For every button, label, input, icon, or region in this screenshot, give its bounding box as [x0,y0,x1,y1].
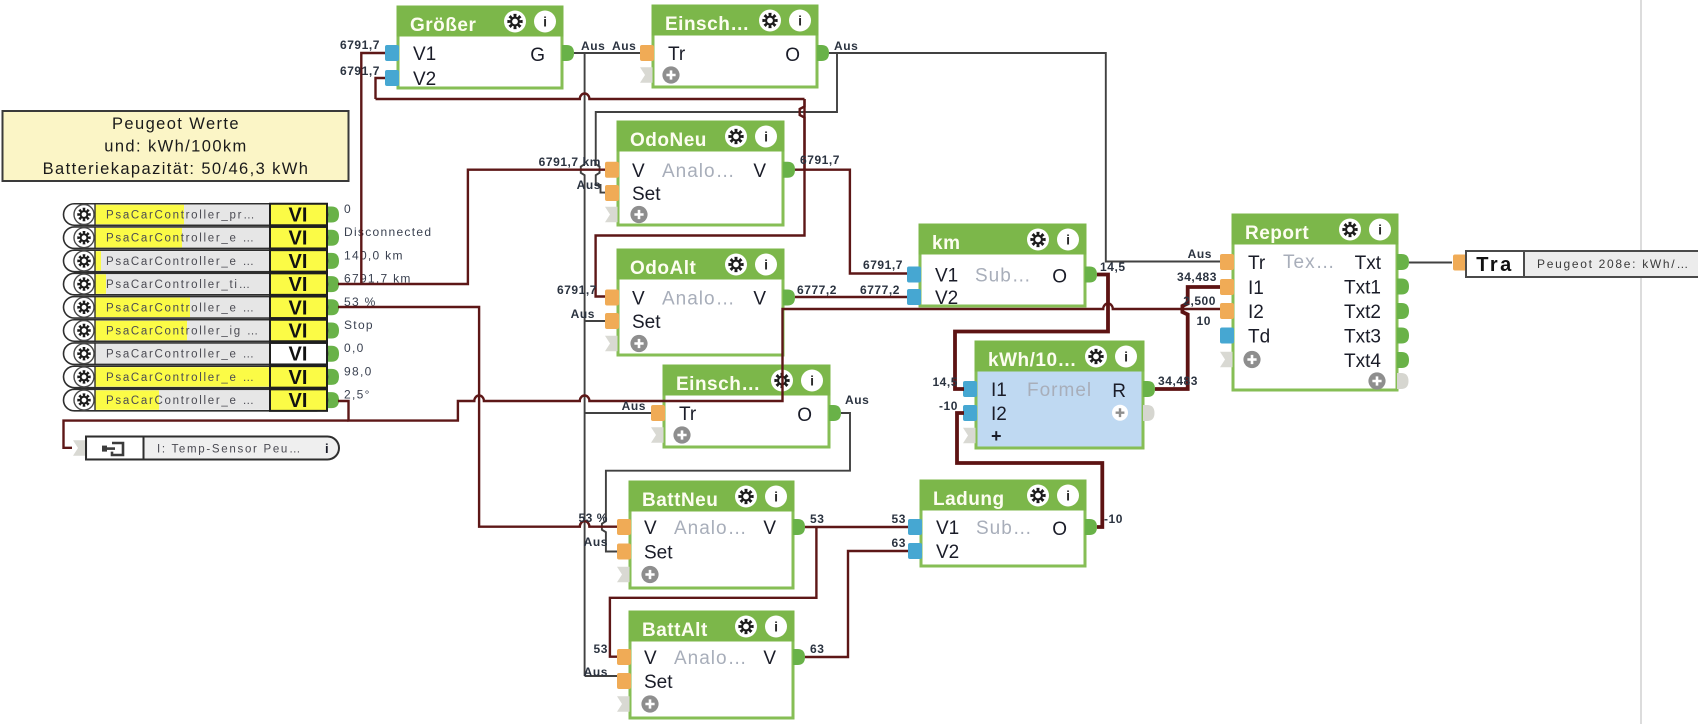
svg-text:Peugeot 208e: kWh/…: Peugeot 208e: kWh/… [1537,257,1690,271]
label km.O out [1100,260,1126,274]
svg-text:PsaCarController_ti…: PsaCarController_ti… [106,279,252,291]
input row 1: 0 [64,204,340,227]
label BattNeu out [810,512,824,526]
svg-text:Txt1: Txt1 [1344,278,1381,299]
label Einsch2.O out Aus [845,393,869,407]
label kWh.I1 in [932,375,958,389]
svg-text:Tra: Tra [1476,254,1514,276]
svg-text:53: 53 [892,512,906,526]
svg-text:Tex…: Tex… [1283,252,1336,273]
svg-text:VI: VI [289,367,308,389]
svg-text:OdoNeu: OdoNeu [630,130,707,151]
svg-text:V2: V2 [413,69,436,90]
svg-text:VI: VI [289,251,308,273]
value label 2,5&#176; [344,388,371,402]
svg-text:VI: VI [289,228,308,250]
svg-text:Set: Set [644,672,673,693]
km ports [907,266,1097,310]
label BattAlt.V in [594,642,608,656]
svg-text:V: V [632,161,645,182]
svg-text:PsaCarController_e …: PsaCarController_e … [106,395,256,407]
svg-text:Tr: Tr [679,404,697,425]
svg-text:Aus: Aus [612,39,636,53]
label Einsch2.Tr in Aus [622,399,646,413]
svg-text:2,500: 2,500 [1183,294,1216,308]
svg-text:Tr: Tr [1248,253,1266,274]
svg-text:2,5°: 2,5° [344,388,371,402]
label Report.I2 in [1183,294,1216,308]
svg-text:O: O [785,45,800,66]
svg-text:PsaCarController_ig …: PsaCarController_ig … [106,326,260,338]
svg-text:G: G [530,45,545,66]
svg-text:Analo…: Analo… [674,518,748,539]
svg-text:VI: VI [289,390,308,412]
wire BattNeu.V to Ladung.V1 [805,526,908,528]
wire net to Größer.V2 [376,78,805,99]
svg-text:PsaCarController_e …: PsaCarController_e … [106,302,256,314]
svg-text:53 %: 53 % [578,511,608,525]
svg-text:km: km [932,233,960,254]
Einsch2 ports [651,404,841,444]
svg-text:53: 53 [594,642,608,656]
svg-text:Aus: Aus [584,535,608,549]
wire km.O to kWh.I1 [955,275,1108,390]
wire net down to OdoAlt.V [596,99,805,297]
label kWh.I2 in [939,399,958,413]
label Einsch1.O out Aus [834,39,858,53]
block BattNeu [629,481,795,589]
BattNeu ports [617,518,805,583]
svg-text:10: 10 [1197,314,1211,328]
label OdoNeu out [800,153,840,167]
value label 0 [344,202,352,216]
wire OdoNeu.V up to y99 [803,99,805,170]
svg-text:-10: -10 [939,399,958,413]
svg-text:Analo…: Analo… [674,648,748,669]
svg-text:Aus: Aus [571,307,595,321]
label BattNeu.Set in Aus [584,535,608,549]
value label 53 % [344,295,377,309]
kWh ports [963,380,1155,446]
svg-text:Td: Td [1248,327,1270,348]
temp sensor row [73,437,339,460]
svg-text:I: Temp-Sensor Peu…: I: Temp-Sensor Peu… [157,444,302,456]
svg-text:V: V [763,518,776,539]
svg-text:0,0: 0,0 [344,341,365,355]
value label 6791,7 km [344,272,412,286]
wire Einsch1.O to OdoNeu.Set [596,53,837,193]
svg-text:63: 63 [892,536,906,550]
svg-text:VI: VI [289,205,308,227]
wire Einsch2.O to BattNeu.Set [602,413,850,552]
svg-text:VI: VI [289,297,308,319]
label BattAlt out [810,642,824,656]
svg-text:R: R [1112,381,1126,402]
svg-text:Peugeot Werte: Peugeot Werte [112,115,240,133]
block Größer [397,6,564,89]
svg-text:Aus: Aus [622,399,646,413]
label BattNeu.V in [578,511,608,525]
Report ports [1220,252,1409,390]
label Report.Tr in Aus [1188,247,1212,261]
svg-text:I1: I1 [991,380,1007,401]
Tra output row [1453,251,1698,277]
svg-text:Aus: Aus [577,178,601,192]
svg-text:PsaCarController_e …: PsaCarController_e … [106,233,256,245]
svg-text:V: V [753,289,766,310]
OdoNeu ports [605,161,795,223]
svg-text:Tr: Tr [668,44,686,65]
label OdoNeu.V in [539,155,601,169]
svg-text:6791,7: 6791,7 [340,38,380,52]
svg-text:PsaCarController_e …: PsaCarController_e … [106,256,256,268]
canvas separator line [1640,0,1642,724]
svg-text:O: O [1052,267,1067,288]
svg-text:Txt2: Txt2 [1344,302,1381,323]
svg-text:I2: I2 [1248,302,1264,323]
wire Einsch1.O to Report.Tr [829,53,1220,262]
svg-text:53: 53 [810,512,824,526]
wire row5 53% to BattNeu.V [338,307,617,527]
svg-text:63: 63 [810,642,824,656]
svg-text:Einsch…: Einsch… [676,374,761,395]
svg-text:kWh/10…: kWh/10… [988,350,1077,371]
svg-text:34,483: 34,483 [1177,270,1217,284]
label OdoAlt.Set in Aus [571,307,595,321]
svg-text:6791,7: 6791,7 [863,258,903,272]
block Report [1232,214,1399,391]
input row 3: 140,0 km [64,250,340,273]
wire BattNeu.V branch to BattAlt.V [610,527,817,657]
value label 0,0 [344,341,365,355]
wire row9 2,5° to Report.I2 [338,303,1220,420]
label BattAlt.Set in Aus [584,665,608,679]
svg-text:Aus: Aus [845,393,869,407]
input row 6: Stop [64,320,340,343]
svg-text:6791,7: 6791,7 [557,283,597,297]
svg-text:V1: V1 [413,44,436,65]
svg-text:V2: V2 [935,288,958,309]
svg-text:Analo…: Analo… [662,289,736,310]
value label 140,0 km [344,248,404,262]
svg-text:14,5: 14,5 [932,375,958,389]
svg-text:O: O [1052,519,1067,540]
label OdoAlt.V in [557,283,597,297]
svg-text:Ladung: Ladung [933,489,1005,510]
svg-text:0: 0 [344,202,352,216]
svg-text:98,0: 98,0 [344,364,373,378]
svg-text:BattNeu: BattNeu [642,490,718,511]
block OdoNeu [617,121,785,226]
label OdoAlt out [797,283,837,297]
svg-text:V: V [753,161,766,182]
wire Report.Txt to Tra [1409,262,1452,264]
label km.V2 in [860,283,900,297]
svg-text:V: V [763,648,776,669]
svg-text:und: kWh/100km: und: kWh/100km [104,138,247,156]
svg-text:Txt4: Txt4 [1344,351,1381,372]
svg-text:34,483: 34,483 [1158,374,1198,388]
svg-text:Sub…: Sub… [976,518,1033,539]
svg-text:6777,2: 6777,2 [860,283,900,297]
block OdoAlt [617,249,785,356]
label Ladung.V1 in [892,512,906,526]
svg-text:Report: Report [1245,223,1309,244]
svg-text:6791,7: 6791,7 [800,153,840,167]
svg-text:V2: V2 [936,542,959,563]
svg-text:PsaCarController_pr…: PsaCarController_pr… [106,210,256,222]
svg-text:Txt: Txt [1355,253,1382,274]
label Report.I1 in [1177,270,1217,284]
Ladung ports [908,518,1097,563]
label Ladung.O out [1104,512,1123,526]
value label Stop [344,318,374,332]
wire row4 branch to Größer.V1 [361,53,385,284]
svg-text:VI: VI [289,321,308,343]
svg-text:6777,2: 6777,2 [797,283,837,297]
svg-text:Aus: Aus [834,39,858,53]
svg-text:Txt3: Txt3 [1344,327,1381,348]
input row 5: 53 % [64,297,340,320]
label Report.Td in [1197,314,1211,328]
svg-text:OdoAlt: OdoAlt [630,258,696,279]
svg-text:Größer: Größer [410,15,476,36]
svg-text:V: V [644,648,657,669]
svg-text:PsaCarController_e …: PsaCarController_e … [106,372,256,384]
block Einsch (middle) [663,365,831,448]
wire Ladung.O to kWh.I2 [957,413,1102,527]
wire OdoAlt.V to km.V2 [795,296,907,298]
label Ladung.V2 in [892,536,906,550]
svg-text:i: i [325,441,329,456]
svg-text:-10: -10 [1104,512,1123,526]
input row 2: Disconnected [64,227,340,250]
svg-text:Formel: Formel [1027,380,1092,401]
value label Disconnected [344,225,432,239]
svg-text:14,5: 14,5 [1100,260,1126,274]
svg-text:Set: Set [632,184,661,205]
svg-text:VI: VI [289,274,308,296]
block kWh/100km [975,341,1145,449]
svg-text:Aus: Aus [581,39,605,53]
label kWh.R out [1158,374,1198,388]
input row 8: 98,0 [64,366,340,389]
wire row4 6791,7km to OdoNeu.V [338,170,605,284]
svg-text:O: O [797,405,812,426]
block BattAlt [629,611,795,719]
svg-text:Set: Set [632,312,661,333]
svg-text:6791,7 km: 6791,7 km [539,155,601,169]
svg-text:Batteriekapazität: 50/46,3 kWh: Batteriekapazität: 50/46,3 kWh [43,160,310,178]
wire kWh.R to Report.I1 [1155,287,1220,389]
svg-text:Analo…: Analo… [662,161,736,182]
block km [919,224,1087,307]
OdoAlt ports [605,289,795,353]
svg-text:Disconnected: Disconnected [344,225,432,239]
input row 7: 0,0 [64,343,340,366]
block Ladung [920,480,1087,567]
label Größer.V1 in [340,38,380,52]
wire OdoNeu.V to km.V1 [795,170,907,274]
input row 9: 2,5&#176; [64,389,340,412]
input row 4: 6791,7 km [64,273,340,296]
svg-text:I1: I1 [1248,278,1264,299]
svg-text:6791,7: 6791,7 [340,64,380,78]
note box Peugeot Werte [3,111,349,181]
value label 98,0 [344,364,373,378]
label km.V1 in [863,258,903,272]
svg-text:140,0 km: 140,0 km [344,248,404,262]
Einsch1 ports [640,44,829,84]
svg-text:PsaCarController_e …: PsaCarController_e … [106,349,256,361]
wire Größer.G to Einsch1.Tr [574,52,640,54]
wire BattAlt.V to Ladung.V2 [805,551,908,657]
BattAlt ports [617,648,805,713]
svg-text:VI: VI [289,344,308,366]
svg-text:Set: Set [644,543,673,564]
label OdoNeu.Set in Aus [577,178,601,192]
svg-text:Einsch…: Einsch… [665,14,750,35]
svg-text:V: V [644,518,657,539]
svg-text:+: + [991,426,1002,446]
svg-text:BattAlt: BattAlt [642,620,708,641]
svg-text:V1: V1 [935,266,958,287]
svg-text:Stop: Stop [344,318,374,332]
wire Größer.G trunk down [581,53,651,676]
svg-text:Sub…: Sub… [975,266,1032,287]
svg-text:Aus: Aus [1188,247,1212,261]
label Einsch1.Tr in Aus [612,39,636,53]
svg-text:I2: I2 [991,404,1007,425]
svg-text:V1: V1 [936,518,959,539]
label Größer.V2 in [340,64,380,78]
svg-text:V: V [632,289,645,310]
svg-text:Aus: Aus [584,665,608,679]
Größer ports [385,44,574,90]
label G out Aus [581,39,605,53]
block Einsch (top) [652,5,819,88]
wire row9 branch to temp sensor [64,421,349,448]
